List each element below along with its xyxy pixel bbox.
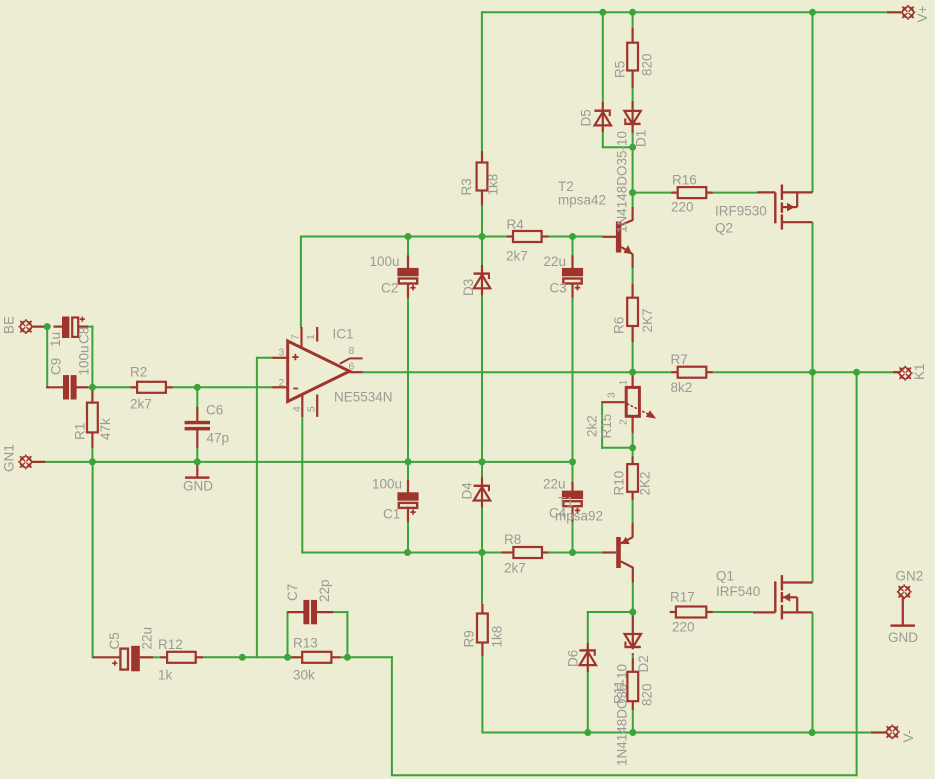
svg-text:3: 3 [606,392,618,398]
svg-text:mpsa42: mpsa42 [558,192,606,207]
svg-text:2k2: 2k2 [585,415,600,437]
svg-text:C8: C8 [77,327,92,344]
svg-text:47p: 47p [207,430,230,445]
svg-text:1N4148DO35-10: 1N4148DO35-10 [615,131,630,233]
svg-text:820: 820 [640,683,655,706]
svg-text:R5: R5 [613,61,628,78]
svg-text:1: 1 [618,380,630,386]
svg-text:1k: 1k [158,668,173,683]
svg-text:R4: R4 [507,217,525,232]
svg-text:8: 8 [349,345,355,357]
svg-text:D2: D2 [636,655,651,672]
svg-text:GN1: GN1 [2,444,17,472]
svg-text:IC1: IC1 [333,327,354,342]
svg-text:IRF540: IRF540 [716,584,760,599]
svg-text:R1: R1 [73,423,88,440]
svg-text:D4: D4 [460,482,475,500]
svg-text:R10: R10 [612,471,627,496]
svg-text:C3: C3 [550,281,567,296]
svg-text:V-: V- [901,730,916,743]
svg-text:mpsa92: mpsa92 [555,509,603,524]
svg-text:2k7: 2k7 [506,249,528,264]
svg-text:47k: 47k [98,418,113,440]
svg-text:R2: R2 [130,365,147,380]
svg-text:C7: C7 [285,584,300,601]
svg-text:K1: K1 [912,363,927,380]
svg-text:R15: R15 [599,414,614,439]
svg-text:R9: R9 [462,630,477,647]
svg-text:220: 220 [671,200,694,215]
svg-text:6: 6 [349,361,355,373]
svg-text:GN2: GN2 [896,569,924,584]
svg-text:C6: C6 [206,403,223,418]
svg-text:1k8: 1k8 [490,626,505,648]
svg-text:GND: GND [888,630,918,645]
svg-text:R6: R6 [612,317,627,334]
svg-text:R8: R8 [504,532,521,547]
svg-text:2k7: 2k7 [504,561,526,576]
svg-text:V+: V+ [915,5,930,22]
svg-text:100u: 100u [77,345,92,375]
svg-text:NE5534N: NE5534N [334,390,393,405]
svg-text:100u: 100u [372,477,402,492]
svg-text:C1: C1 [383,507,400,522]
svg-text:820: 820 [640,53,655,76]
svg-text:7: 7 [290,334,302,340]
svg-text:100u: 100u [370,254,400,269]
svg-text:1N4148DO35-10: 1N4148DO35-10 [615,664,630,766]
svg-text:1k8: 1k8 [486,174,501,196]
svg-text:R12: R12 [158,637,183,652]
svg-text:30k: 30k [293,668,315,683]
svg-text:8k2: 8k2 [671,380,693,395]
svg-text:4: 4 [291,406,303,412]
svg-text:2K2: 2K2 [638,471,653,495]
svg-text:BE: BE [2,316,17,334]
svg-text:C9: C9 [49,358,64,375]
svg-text:22u: 22u [543,477,566,492]
svg-text:22p: 22p [317,579,332,602]
svg-text:C5: C5 [107,632,122,649]
svg-text:D6: D6 [566,650,581,667]
svg-text:R13: R13 [293,636,318,651]
svg-text:D1: D1 [634,130,649,147]
svg-text:R17: R17 [670,589,695,604]
svg-text:R7: R7 [671,352,688,367]
svg-text:IRF9530: IRF9530 [715,204,767,219]
svg-text:D5: D5 [579,109,594,126]
svg-text:3: 3 [279,347,285,359]
svg-text:D3: D3 [461,279,476,296]
svg-text:2k7: 2k7 [130,397,152,412]
svg-text:Q1: Q1 [716,569,734,584]
svg-text:1u: 1u [48,332,63,347]
svg-text:2: 2 [618,419,630,425]
svg-text:22u: 22u [140,627,155,650]
svg-text:R16: R16 [672,173,697,188]
svg-text:C2: C2 [381,281,398,296]
svg-text:2: 2 [279,377,285,389]
svg-text:22u: 22u [544,254,567,269]
svg-text:R3: R3 [459,178,474,195]
svg-text:5: 5 [306,406,318,412]
svg-text:2K7: 2K7 [640,308,655,332]
svg-text:Q2: Q2 [715,221,733,236]
svg-text:220: 220 [672,620,695,635]
svg-text:GND: GND [183,479,213,494]
svg-text:1: 1 [305,334,317,340]
